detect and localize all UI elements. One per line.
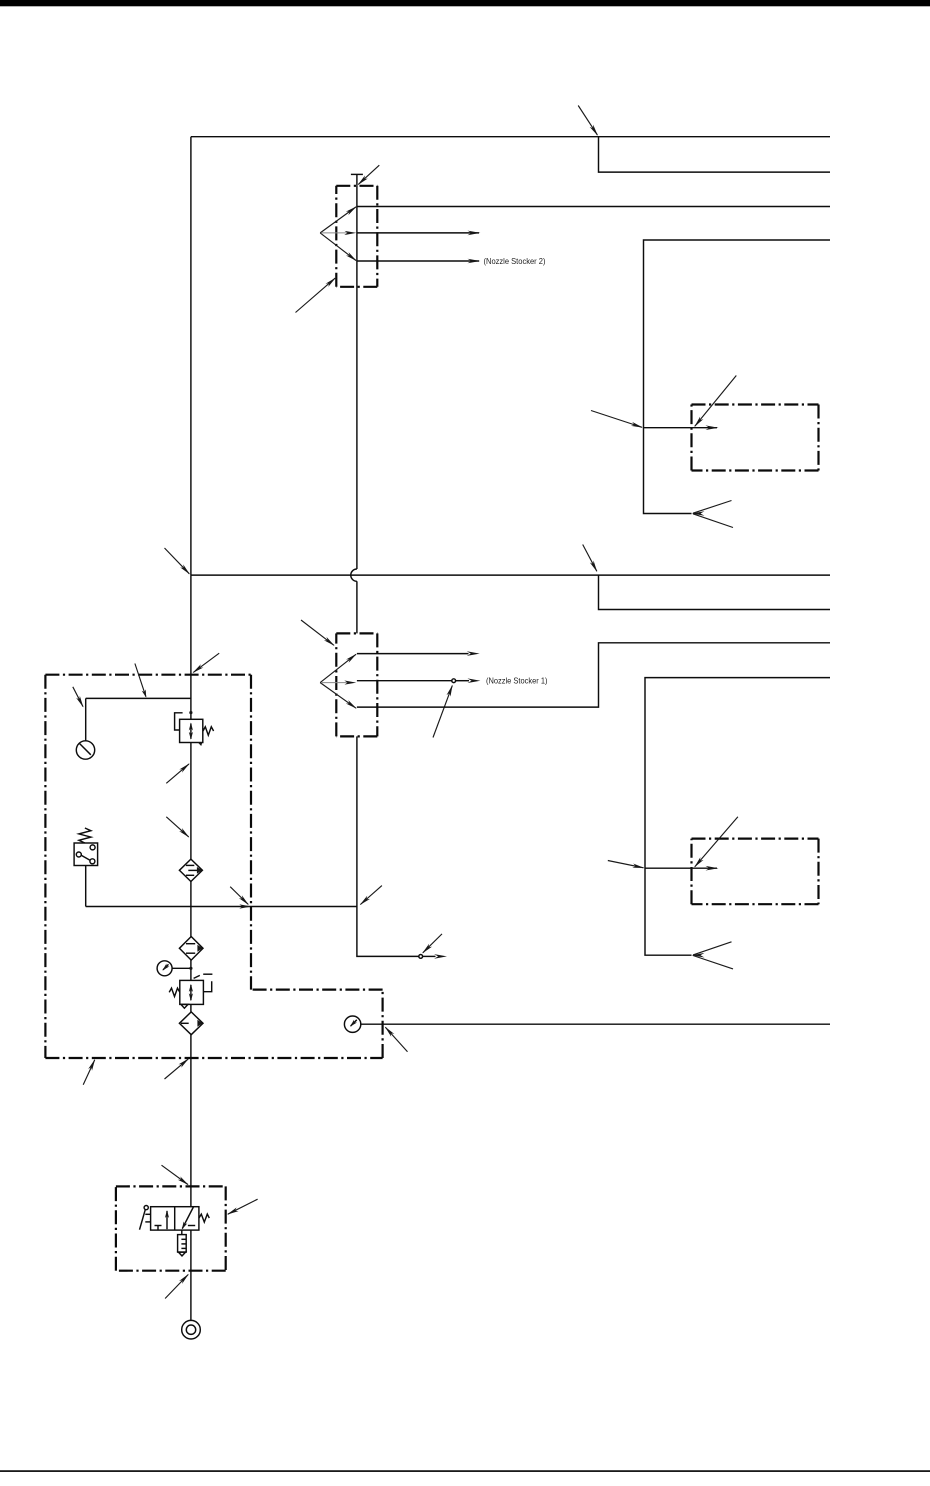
svg-text:(Nozzle Stocker 2): (Nozzle Stocker 2) bbox=[484, 256, 546, 266]
svg-text:(Nozzle Stocker 1): (Nozzle Stocker 1) bbox=[486, 676, 548, 686]
